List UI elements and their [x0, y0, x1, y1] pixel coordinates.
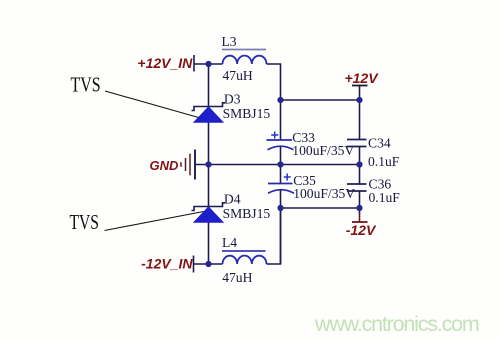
svg-text:47uH: 47uH	[222, 270, 252, 285]
power -12V bar	[352, 221, 368, 223]
capacitor C33	[267, 130, 355, 158]
svg-text:SMBJ15: SMBJ15	[223, 106, 271, 121]
svg-text:0.1uF: 0.1uF	[368, 154, 400, 169]
svg-text:L4: L4	[222, 235, 237, 250]
svg-text:100uF/35V: 100uF/35V	[293, 186, 355, 201]
wire left rail	[208, 64, 210, 264]
svg-text:+12V: +12V	[344, 70, 379, 86]
svg-text:-12V_IN: -12V_IN	[141, 256, 193, 272]
diode D3	[192, 92, 271, 123]
inductor L3	[222, 34, 267, 83]
svg-text:TVS: TVS	[71, 73, 101, 97]
annotation TVS top leader line	[105, 91, 199, 118]
svg-text:+12V_IN: +12V_IN	[137, 55, 193, 71]
svg-text:GND: GND	[150, 158, 180, 173]
svg-text:SMBJ15: SMBJ15	[223, 206, 271, 221]
wire L4 right corner up	[267, 208, 281, 264]
port +12V_IN tick	[193, 55, 195, 72]
svg-text:47uH: 47uH	[223, 68, 253, 83]
svg-text:C34: C34	[368, 136, 391, 151]
svg-text:www.cntronics.com: www.cntronics.com	[314, 312, 479, 336]
port -12V_IN tick	[193, 256, 195, 273]
inductor L4	[222, 235, 267, 285]
wire C36 bottom	[359, 191, 361, 214]
svg-text:-12V: -12V	[346, 222, 377, 238]
wire C33 bottom	[280, 147, 282, 184]
wire rail mid-bottom	[281, 207, 360, 209]
svg-text:L3: L3	[222, 34, 237, 49]
power +12V bar	[352, 85, 368, 87]
svg-text:TVS: TVS	[70, 211, 99, 234]
capacitor C35	[268, 173, 355, 201]
wire -12V_IN to L4	[194, 263, 223, 265]
wire C35 bottom	[280, 190, 282, 264]
wire rail mid-top	[281, 99, 360, 101]
node junction dots	[205, 61, 362, 267]
capacitor C34	[347, 136, 400, 170]
svg-text:100uF/35V: 100uF/35V	[292, 143, 354, 158]
power -12V stem	[359, 213, 361, 222]
ground symbol	[181, 150, 195, 180]
annotation TVS bottom leader line	[105, 212, 204, 231]
wire GND rail	[195, 164, 360, 166]
wire L3 right corner down	[267, 64, 281, 140]
capacitor C36	[347, 176, 400, 205]
wire C34 to C36	[359, 147, 361, 185]
wire +12V to C34	[359, 86, 361, 140]
diode D4	[192, 192, 271, 223]
svg-text:0.1uF: 0.1uF	[369, 190, 401, 205]
wire +12V_IN to L3	[194, 63, 223, 65]
svg-text:D4: D4	[224, 192, 241, 207]
svg-text:D3: D3	[224, 92, 241, 107]
